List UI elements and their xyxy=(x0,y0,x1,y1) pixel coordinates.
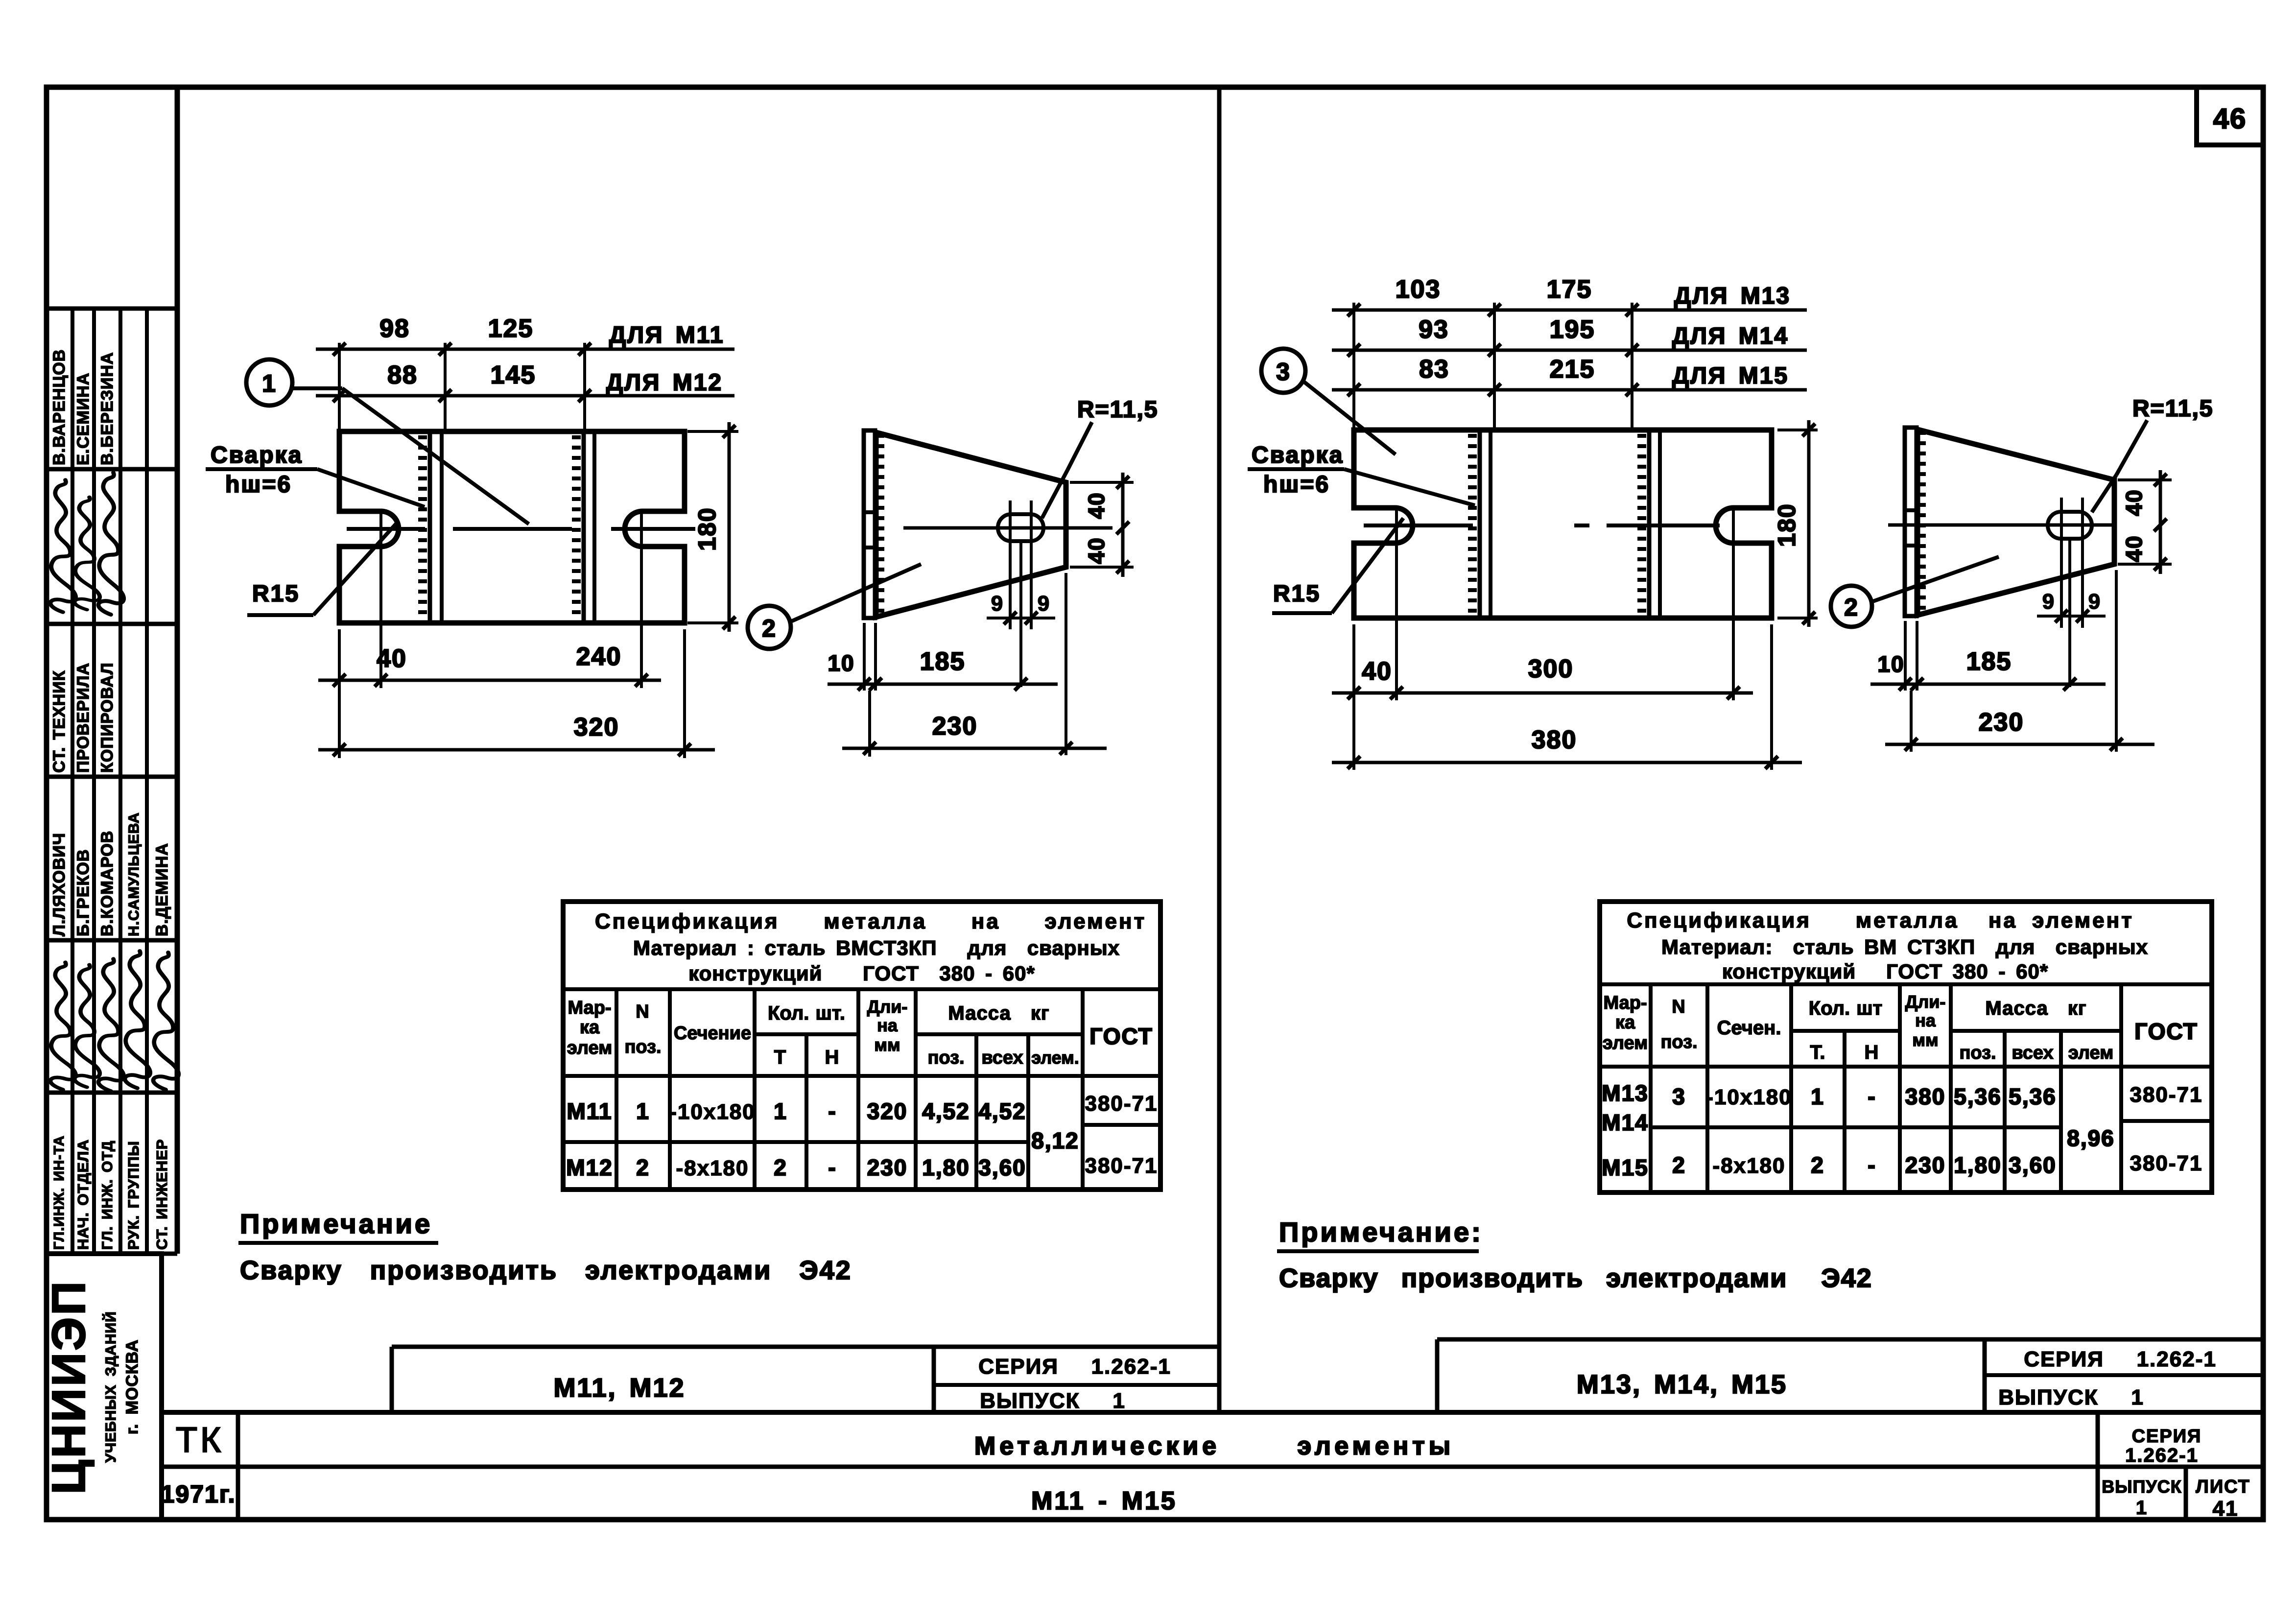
svg-text:103: 103 xyxy=(1396,275,1441,304)
svg-text:185: 185 xyxy=(1966,647,2012,676)
left table data rows xyxy=(566,1092,1158,1180)
svg-text:-10x180: -10x180 xyxy=(669,1100,755,1124)
radius label R15 (right plan) xyxy=(1272,518,1403,613)
weld ticks on bar (side view left) xyxy=(875,436,884,611)
svg-text:КОПИРОВАЛ: КОПИРОВАЛ xyxy=(98,663,117,773)
svg-text:В.ВАРЕНЦОВ: В.ВАРЕНЦОВ xyxy=(50,349,69,465)
svg-text:СЕРИЯ 1.262-1: СЕРИЯ 1.262-1 xyxy=(2024,1347,2217,1371)
svg-text:ДЛЯ М11: ДЛЯ М11 xyxy=(609,322,724,348)
svg-text:180: 180 xyxy=(1773,503,1800,547)
svg-text:Масса кг: Масса кг xyxy=(1985,998,2086,1019)
svg-text:230: 230 xyxy=(1905,1152,1946,1178)
svg-text:-: - xyxy=(1868,1084,1876,1109)
plate M13 plan view outline with keyhole slots xyxy=(1354,430,1772,618)
left table header text xyxy=(595,909,1146,985)
svg-text:СЕРИЯ: СЕРИЯ xyxy=(2132,1426,2202,1447)
dimension line 40 / 300 xyxy=(1332,655,1753,699)
svg-text:на: на xyxy=(1915,1010,1936,1030)
svg-text:М13: М13 xyxy=(1602,1080,1648,1106)
svg-text:3: 3 xyxy=(1276,358,1291,385)
specification table (left, M11/M12) xyxy=(563,902,1160,1190)
svg-text:ДЛЯ М12: ДЛЯ М12 xyxy=(606,370,723,396)
svg-text:СТ. ТЕХНИК: СТ. ТЕХНИК xyxy=(50,670,69,773)
svg-text:Сечение: Сечение xyxy=(674,1023,751,1044)
svg-text:поз.: поз. xyxy=(624,1037,661,1057)
svg-text:240: 240 xyxy=(576,643,622,671)
radius label R=11,5 (right side view) xyxy=(2092,396,2213,512)
extension lines top dims M11/M12 xyxy=(339,343,585,431)
svg-text:2: 2 xyxy=(1811,1152,1824,1178)
approval table grid (left margin) xyxy=(47,309,177,1254)
svg-text:ДЛЯ М14: ДЛЯ М14 xyxy=(1672,323,1789,349)
right table column headers xyxy=(1603,992,2198,1063)
dimension line 40 / 240 xyxy=(318,643,661,687)
svg-text:N: N xyxy=(1672,997,1686,1017)
svg-text:230: 230 xyxy=(867,1155,908,1180)
svg-text:3: 3 xyxy=(1672,1084,1686,1109)
roles: gl.inzh.in-ta etc xyxy=(51,1135,170,1250)
svg-text:R15: R15 xyxy=(252,581,300,607)
svg-text:Кол. шт.: Кол. шт. xyxy=(768,1002,845,1024)
svg-text:1,80: 1,80 xyxy=(1954,1152,2002,1178)
svg-text:40: 40 xyxy=(2121,489,2147,516)
svg-text:9: 9 xyxy=(2088,590,2101,614)
svg-text:380-71: 380-71 xyxy=(1085,1092,1158,1116)
svg-text:Спецификация металла на эле: Спецификация металла на элемент xyxy=(1627,908,2134,932)
dimension 10 / 185 (right side view) xyxy=(1870,647,2106,691)
svg-text:-8x180: -8x180 xyxy=(1712,1154,1785,1178)
svg-text:93: 93 xyxy=(1419,315,1449,344)
svg-text:40: 40 xyxy=(1084,492,1109,519)
svg-text:2: 2 xyxy=(762,615,777,642)
svg-text:180: 180 xyxy=(693,507,721,550)
svg-text:Сечен.: Сечен. xyxy=(1717,1017,1781,1039)
svg-text:ЛИСТ: ЛИСТ xyxy=(2196,1477,2250,1497)
weld note label Svarka hsh=6 (left) xyxy=(206,442,425,507)
svg-text:88: 88 xyxy=(387,361,418,389)
svg-text:ГЛ.ИНЖ. ИН-ТА: ГЛ.ИНЖ. ИН-ТА xyxy=(51,1135,67,1250)
gusset M12 side view trapezoid xyxy=(876,432,1066,617)
svg-text:ГЛ. ИНЖ. ОТД: ГЛ. ИНЖ. ОТД xyxy=(99,1141,116,1250)
svg-text:215: 215 xyxy=(1550,355,1595,383)
gusset M15 side view trapezoid xyxy=(1917,429,2114,615)
svg-text:380-71: 380-71 xyxy=(1085,1154,1158,1178)
note text right xyxy=(1279,1263,1872,1293)
svg-text:40: 40 xyxy=(1084,537,1109,564)
svg-text:Н: Н xyxy=(1865,1042,1880,1063)
side view bar (M11 edge) xyxy=(864,430,875,618)
svg-text:Примечание: Примечание xyxy=(240,1208,432,1239)
svg-text:ВЫПУСК: ВЫПУСК xyxy=(2102,1477,2182,1497)
svg-text:всех: всех xyxy=(2012,1043,2053,1063)
svg-text:1.262-1: 1.262-1 xyxy=(2125,1445,2199,1466)
right table header text xyxy=(1627,908,2148,983)
dimension line 83 / 215 (for M15) xyxy=(1332,355,1807,396)
svg-text:320: 320 xyxy=(574,713,619,741)
svg-text:Н: Н xyxy=(825,1047,840,1068)
svg-text:на: на xyxy=(877,1015,898,1035)
svg-text:элем: элем xyxy=(567,1038,612,1058)
svg-text:1: 1 xyxy=(1811,1084,1824,1109)
svg-text:8,96: 8,96 xyxy=(2067,1125,2115,1151)
svg-text:175: 175 xyxy=(1547,275,1592,304)
svg-text:ГОСТ: ГОСТ xyxy=(2134,1019,2198,1044)
svg-text:СЕРИЯ 1.262-1: СЕРИЯ 1.262-1 xyxy=(978,1355,1171,1379)
svg-text:185: 185 xyxy=(920,647,966,676)
dimension line 93 / 195 (for M14) xyxy=(1332,315,1807,357)
svg-text:М12: М12 xyxy=(566,1155,613,1180)
svg-text:ка: ка xyxy=(580,1017,600,1038)
svg-text:ка: ка xyxy=(1615,1012,1635,1033)
radius label R15 (left plan) xyxy=(247,522,398,615)
title box M13, M14, M15 xyxy=(1437,1339,2263,1412)
svg-text:Б.ГРЕКОВ: Б.ГРЕКОВ xyxy=(74,849,93,936)
svg-text:-: - xyxy=(828,1098,836,1124)
svg-text:Л.ЛЯХОВИЧ: Л.ЛЯХОВИЧ xyxy=(50,833,69,936)
weld seam left (plan M13) xyxy=(1468,431,1491,617)
svg-text:125: 125 xyxy=(488,314,534,343)
extension lines bottom (right side view) xyxy=(1905,570,2116,752)
svg-text:-: - xyxy=(1868,1152,1876,1178)
svg-text:ТК: ТК xyxy=(176,1421,224,1460)
svg-text:83: 83 xyxy=(1419,355,1449,383)
svg-text:М11 - М15: М11 - М15 xyxy=(1031,1487,1177,1515)
svg-text:R=11,5: R=11,5 xyxy=(2132,396,2213,422)
hole center extension lines xyxy=(1010,500,1031,687)
svg-text:1,80: 1,80 xyxy=(922,1155,970,1180)
balloon 3 xyxy=(1261,349,1396,454)
svg-text:Сварку производить электрода: Сварку производить электродами Э42 xyxy=(1279,1263,1872,1293)
svg-text:2: 2 xyxy=(1672,1152,1686,1178)
signatures row 2 xyxy=(50,951,179,1091)
svg-text:поз.: поз. xyxy=(1660,1032,1697,1052)
svg-text:Сварку производить электрода: Сварку производить электродами Э42 xyxy=(240,1256,852,1285)
svg-text:СТ. ИНЖЕНЕР: СТ. ИНЖЕНЕР xyxy=(153,1139,170,1250)
svg-text:-10x180: -10x180 xyxy=(1706,1085,1792,1109)
weld seam left (plan M11) xyxy=(418,432,442,622)
svg-text:1: 1 xyxy=(774,1098,787,1124)
svg-text:М11, М12: М11, М12 xyxy=(553,1373,685,1403)
dimension line 320 xyxy=(318,713,715,756)
svg-text:hш=6: hш=6 xyxy=(225,472,292,498)
svg-text:Масса кг: Масса кг xyxy=(948,1002,1049,1024)
dimension line 380 xyxy=(1332,726,1802,769)
centerline dashes plate M13 xyxy=(1364,524,1720,527)
balloon 1 xyxy=(246,359,529,524)
svg-text:1: 1 xyxy=(636,1098,650,1124)
svg-text:ВЫПУСК 1: ВЫПУСК 1 xyxy=(980,1389,1126,1413)
svg-text:М14: М14 xyxy=(1602,1110,1648,1135)
svg-text:8,12: 8,12 xyxy=(1031,1128,1079,1153)
svg-text:Материал : сталь ВМСТ3КП для: Материал : сталь ВМСТ3КП для сварных xyxy=(633,936,1120,959)
svg-text:В.БЕРЕЗИНА: В.БЕРЕЗИНА xyxy=(98,352,117,465)
svg-text:Т: Т xyxy=(774,1047,787,1068)
central divider between M11-M12 half and M13-M15 half xyxy=(1217,87,1222,1412)
svg-text:В.КОМАРОВ: В.КОМАРОВ xyxy=(98,831,117,936)
note heading right: Primechanie: xyxy=(1277,1216,1483,1251)
centerline side view left xyxy=(903,526,1112,530)
hole center extension lines (right side view) xyxy=(2061,498,2083,687)
svg-text:Мар-: Мар- xyxy=(568,998,611,1018)
svg-text:Металлические элементы: Металлические элементы xyxy=(974,1432,1454,1460)
svg-text:Материал: сталь ВМ СТ3КП для: Материал: сталь ВМ СТ3КП для сварных xyxy=(1661,935,2148,958)
left margin strip divider xyxy=(175,87,180,1254)
svg-text:3,60: 3,60 xyxy=(978,1155,1026,1180)
svg-text:элем: элем xyxy=(2068,1043,2113,1063)
svg-text:конструкций ГОСТ 380 - 60*: конструкций ГОСТ 380 - 60* xyxy=(688,962,1035,985)
svg-text:230: 230 xyxy=(1979,708,2024,737)
svg-text:ДЛЯ М15: ДЛЯ М15 xyxy=(1672,363,1789,389)
side view bar (M13 edge) xyxy=(1905,428,1917,616)
extension lines bottom dims (right plan) xyxy=(1354,510,1772,770)
extension lines top dims M13-M15 xyxy=(1354,303,1632,430)
svg-text:ГОСТ: ГОСТ xyxy=(1089,1024,1153,1049)
balloon 2 (right) xyxy=(1831,557,1999,627)
year 1971 xyxy=(161,1480,236,1508)
dimension 10 / 185 (left side view) xyxy=(828,647,1058,691)
svg-text:R15: R15 xyxy=(1273,581,1321,607)
svg-text:Примечание:: Примечание: xyxy=(1279,1216,1483,1247)
svg-text:380: 380 xyxy=(1532,726,1577,754)
dimension 230 (left side view) xyxy=(842,712,1107,755)
svg-text:поз.: поз. xyxy=(927,1048,964,1068)
dimension 180 vertical (M11 plate width) xyxy=(687,422,738,632)
svg-text:320: 320 xyxy=(867,1098,908,1124)
svg-text:195: 195 xyxy=(1550,315,1595,344)
weld seam right (plan M11) xyxy=(572,432,594,622)
svg-text:-: - xyxy=(828,1155,836,1180)
svg-text:1971г.: 1971г. xyxy=(161,1480,236,1508)
svg-text:380-71: 380-71 xyxy=(2130,1151,2202,1175)
svg-text:Дли-: Дли- xyxy=(1905,992,1946,1012)
svg-text:ПРОВЕРИЛА: ПРОВЕРИЛА xyxy=(74,663,93,773)
svg-text:9: 9 xyxy=(2042,590,2055,614)
svg-text:элем: элем xyxy=(1603,1033,1648,1053)
svg-text:ВЫПУСК 1: ВЫПУСК 1 xyxy=(1998,1385,2144,1409)
svg-text:9: 9 xyxy=(991,592,1004,616)
svg-text:конструкций ГОСТ 380 - 60*: конструкций ГОСТ 380 - 60* xyxy=(1722,960,2048,983)
svg-text:4,52: 4,52 xyxy=(922,1098,970,1124)
svg-text:hш=6: hш=6 xyxy=(1263,472,1330,498)
svg-text:3,60: 3,60 xyxy=(2009,1152,2057,1178)
svg-text:поз.: поз. xyxy=(1959,1043,1996,1063)
left table column headers xyxy=(567,997,1153,1068)
dimension line 88 / 145 (for M12) xyxy=(316,361,734,402)
svg-text:Сварка: Сварка xyxy=(1252,442,1344,468)
svg-text:1: 1 xyxy=(2136,1497,2148,1519)
svg-text:М13, М14, М15: М13, М14, М15 xyxy=(1577,1370,1787,1399)
svg-text:4,52: 4,52 xyxy=(978,1098,1026,1124)
svg-text:380: 380 xyxy=(1905,1084,1946,1109)
svg-text:ЦНИИЭП: ЦНИИЭП xyxy=(43,1280,95,1495)
plate M11 plan view outline with keyhole slots xyxy=(339,431,685,623)
right table data rows xyxy=(1602,1080,2202,1180)
dimension 9/9 hole offsets (right side view) xyxy=(2037,590,2106,622)
weld note label Svarka hsh=6 (right) xyxy=(1248,442,1475,505)
svg-text:всех: всех xyxy=(981,1048,1023,1068)
svg-text:145: 145 xyxy=(491,361,536,389)
dimension line 103 / 175 (for M13) xyxy=(1332,275,1807,316)
svg-text:мм: мм xyxy=(1912,1030,1938,1050)
dimension line 98 / 125 (for M11) xyxy=(316,314,734,356)
svg-text:В.ДЕМИНА: В.ДЕМИНА xyxy=(153,843,171,936)
svg-text:-8x180: -8x180 xyxy=(676,1156,749,1180)
svg-text:40: 40 xyxy=(2121,535,2147,562)
page number box 46 xyxy=(2197,87,2263,145)
obround hole side view right xyxy=(2048,512,2092,539)
signatures row 1 xyxy=(50,473,124,615)
dimension 180 vertical (M13 plate width) xyxy=(1773,420,1818,627)
names: V.Varentsov, E.Semina, V.Berezina xyxy=(50,349,117,465)
title block band lines xyxy=(162,1412,2263,1520)
dimension 9/9 hole offsets (left side view) xyxy=(987,592,1055,624)
svg-text:40: 40 xyxy=(1362,657,1392,686)
svg-text:98: 98 xyxy=(379,314,410,343)
svg-text:Мар-: Мар- xyxy=(1603,993,1647,1013)
svg-text:Т.: Т. xyxy=(1810,1042,1825,1063)
svg-text:2: 2 xyxy=(1844,594,1859,621)
svg-text:R=11,5: R=11,5 xyxy=(1077,397,1158,423)
extension lines bottom (left side view) xyxy=(864,573,1066,757)
svg-text:46: 46 xyxy=(2213,103,2247,135)
TsNIIEP institute block xyxy=(43,1254,162,1520)
svg-text:Кол. шт: Кол. шт xyxy=(1809,998,1882,1019)
specification table (right, M13-M15) xyxy=(1600,902,2212,1192)
sheet title: metal elements xyxy=(974,1432,1454,1460)
dimension 40/40 (left side view) xyxy=(1070,473,1134,577)
svg-text:380-71: 380-71 xyxy=(2130,1083,2202,1107)
dimension 230 (right side view) xyxy=(1885,708,2154,751)
svg-text:10: 10 xyxy=(1877,651,1904,677)
note heading left: Primechanie xyxy=(238,1208,438,1243)
svg-text:Е.СЕМИНА: Е.СЕМИНА xyxy=(74,373,93,465)
svg-text:230: 230 xyxy=(932,712,978,740)
svg-text:Дли-: Дли- xyxy=(867,997,908,1017)
svg-text:г. МОСКВА: г. МОСКВА xyxy=(123,1339,142,1434)
extension lines bottom dims xyxy=(339,513,685,758)
svg-text:9: 9 xyxy=(1038,592,1050,616)
svg-text:М11: М11 xyxy=(567,1098,613,1124)
svg-text:40: 40 xyxy=(377,644,407,673)
svg-text:УЧЕБНЫХ ЗДАНИЙ: УЧЕБНЫХ ЗДАНИЙ xyxy=(102,1311,119,1462)
svg-text:2: 2 xyxy=(774,1155,787,1180)
svg-text:РУК. ГРУППЫ: РУК. ГРУППЫ xyxy=(125,1141,142,1250)
svg-text:10: 10 xyxy=(828,650,854,676)
radius label R=11,5 (left side view) xyxy=(1042,397,1158,518)
svg-text:300: 300 xyxy=(1528,655,1574,683)
centerline side view right xyxy=(1888,524,2114,527)
svg-text:Н.САМУЛЬЦЕВА: Н.САМУЛЬЦЕВА xyxy=(126,812,142,936)
svg-text:ДЛЯ М13: ДЛЯ М13 xyxy=(1674,283,1791,309)
svg-text:мм: мм xyxy=(874,1035,900,1055)
note text left xyxy=(240,1256,852,1285)
svg-text:5,36: 5,36 xyxy=(2009,1084,2057,1109)
TK cell xyxy=(176,1421,224,1460)
series box small: seriya 1.262-1 / vypusk / list xyxy=(2102,1426,2250,1521)
dimension 40/40 (right side view) xyxy=(2118,470,2172,574)
svg-text:N: N xyxy=(636,1001,650,1022)
weld ticks on bar (side view right) xyxy=(1917,433,1926,608)
svg-text:элем.: элем. xyxy=(1031,1048,1079,1068)
title box M11, M12 xyxy=(392,1347,1219,1413)
centerline dashes plate M11 xyxy=(347,527,695,531)
svg-text:Сварка: Сварка xyxy=(211,442,303,468)
svg-text:41: 41 xyxy=(2213,1497,2239,1521)
obround hole side view left xyxy=(998,514,1043,541)
weld seam right (plan M13) xyxy=(1637,431,1660,617)
svg-text:2: 2 xyxy=(636,1155,650,1180)
sheet subtitle M11 - M15 xyxy=(1031,1487,1177,1515)
svg-text:5,36: 5,36 xyxy=(1954,1084,2002,1109)
svg-text:1: 1 xyxy=(262,370,277,397)
names: L.Lyakhovich, B.Grekov, V.Komarov, N.Samultseva, V.Demina xyxy=(50,812,171,936)
balloon 2 (left) xyxy=(748,564,921,649)
svg-text:НАЧ. ОТДЕЛА: НАЧ. ОТДЕЛА xyxy=(74,1139,92,1250)
svg-text:М15: М15 xyxy=(1602,1155,1648,1180)
svg-text:Спецификация металла на: Спецификация металла на элемент xyxy=(595,909,1146,933)
roles: st.tekhnik, proverila, kopiroval xyxy=(50,663,117,773)
